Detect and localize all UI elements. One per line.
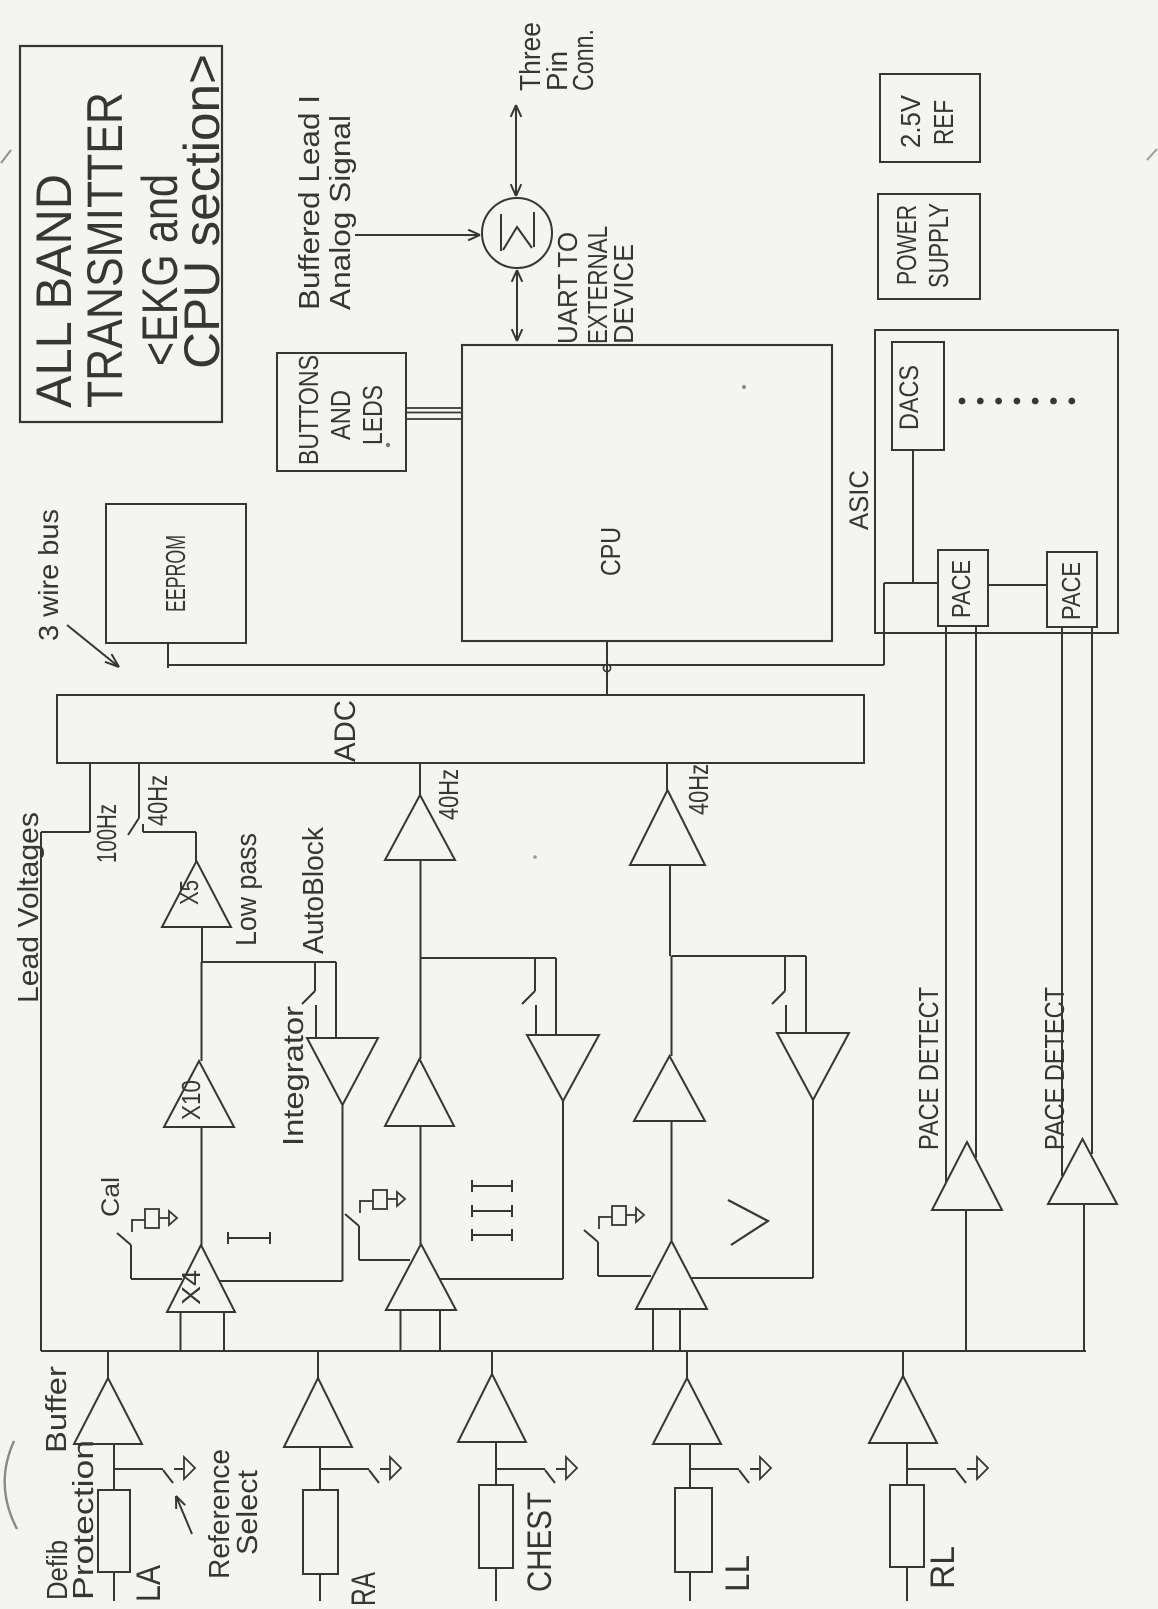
- svg-text:DACS: DACS: [894, 365, 924, 430]
- svg-text:PACE DETECT: PACE DETECT: [913, 987, 944, 1150]
- svg-text:40Hz: 40Hz: [433, 769, 464, 820]
- svg-text:PACE DETECT: PACE DETECT: [1039, 987, 1070, 1150]
- svg-text:Conn.: Conn.: [568, 29, 600, 91]
- svg-text:DEVICE: DEVICE: [608, 244, 639, 344]
- svg-text:AutoBlock: AutoBlock: [298, 827, 330, 954]
- svg-text:Low pass: Low pass: [231, 833, 263, 946]
- svg-text:CPU section>: CPU section>: [174, 54, 230, 369]
- svg-text:AND: AND: [325, 390, 356, 440]
- svg-text:X4: X4: [176, 1270, 206, 1305]
- svg-text:100Hz: 100Hz: [91, 804, 122, 863]
- svg-text:TRANSMITTER: TRANSMITTER: [77, 92, 133, 408]
- svg-text:CHEST: CHEST: [521, 1492, 559, 1592]
- svg-text:Buffer: Buffer: [41, 1366, 73, 1453]
- svg-text:UART TO: UART TO: [552, 232, 583, 344]
- svg-text:X5: X5: [174, 880, 204, 905]
- svg-text:RL: RL: [924, 1546, 962, 1589]
- svg-text:Cal: Cal: [97, 1177, 125, 1217]
- svg-text:RA: RA: [345, 1572, 383, 1606]
- svg-text:ASIC: ASIC: [844, 470, 874, 530]
- svg-text:40Hz: 40Hz: [142, 775, 173, 826]
- svg-text:Integrator: Integrator: [278, 1006, 310, 1146]
- svg-text:REF: REF: [928, 100, 959, 145]
- svg-text:SUPPLY: SUPPLY: [923, 203, 954, 288]
- svg-text:ADC: ADC: [329, 700, 362, 762]
- svg-text:POWER: POWER: [891, 205, 922, 285]
- svg-text:PACE: PACE: [1056, 562, 1086, 620]
- svg-text:Analog Signal: Analog Signal: [325, 115, 357, 310]
- svg-text:LL: LL: [719, 1555, 757, 1592]
- svg-text:Select: Select: [232, 1470, 264, 1555]
- svg-text:Protection: Protection: [68, 1440, 100, 1600]
- svg-text:X10: X10: [176, 1080, 206, 1120]
- svg-text:LA: LA: [130, 1565, 168, 1602]
- svg-text:ALL BAND: ALL BAND: [26, 174, 82, 408]
- svg-text:3 wire bus: 3 wire bus: [33, 509, 64, 641]
- svg-text:EEPROM: EEPROM: [160, 535, 191, 612]
- svg-text:LEDS: LEDS: [357, 385, 388, 445]
- svg-text:Buffered Lead I: Buffered Lead I: [294, 95, 326, 310]
- svg-text:PACE: PACE: [946, 560, 976, 618]
- svg-text:CPU: CPU: [595, 527, 626, 576]
- svg-text:40Hz: 40Hz: [683, 764, 714, 815]
- svg-text:BUTTONS: BUTTONS: [293, 355, 324, 465]
- svg-text:2.5V: 2.5V: [895, 95, 926, 148]
